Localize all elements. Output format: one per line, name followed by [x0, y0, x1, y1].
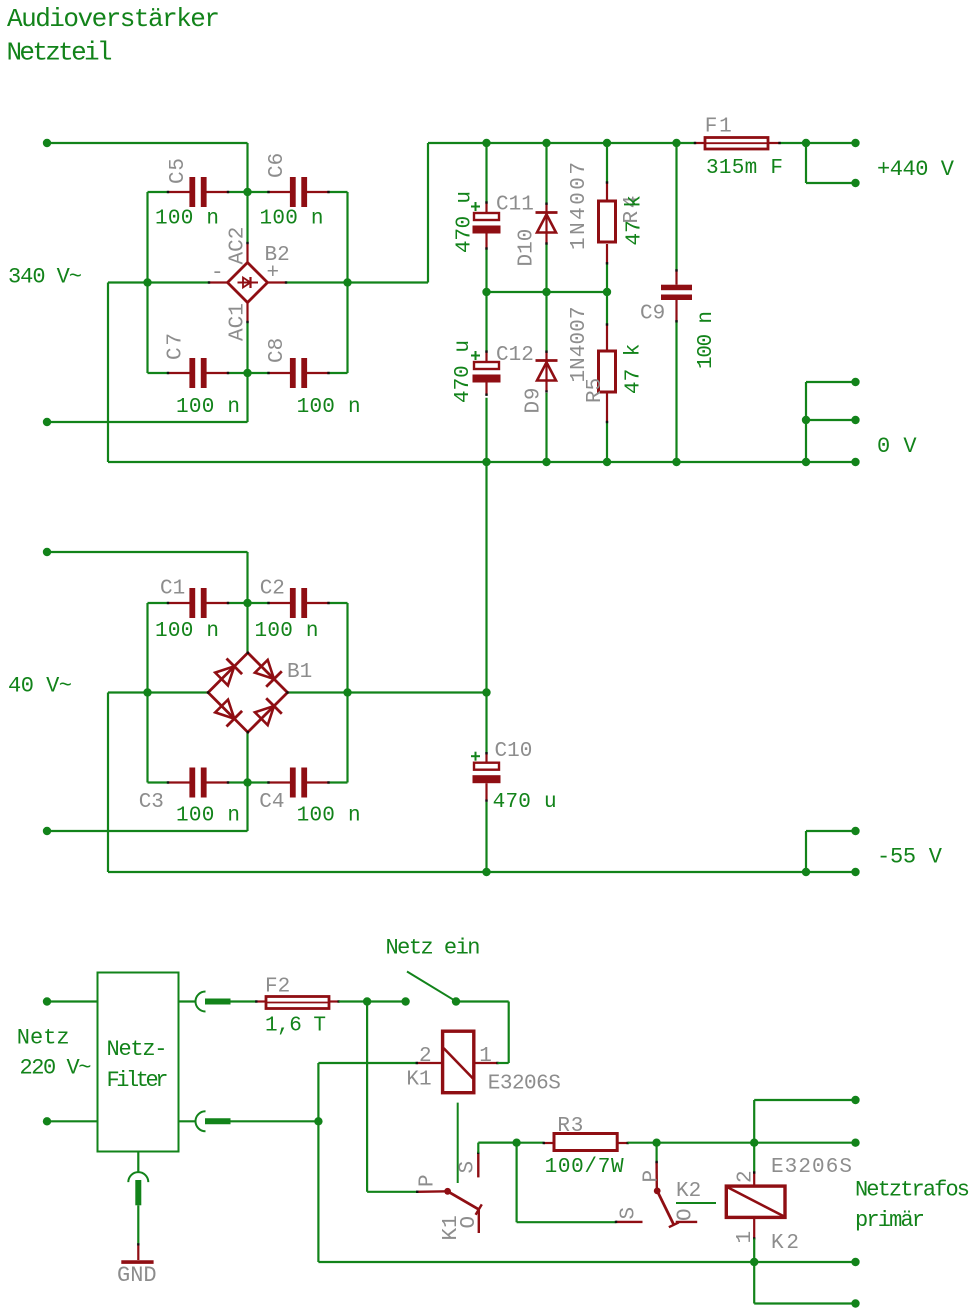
svg-text:C8: C8	[266, 338, 289, 363]
svg-text:100 n: 100 n	[260, 208, 324, 231]
svg-text:Netz: Netz	[17, 1026, 70, 1051]
svg-text:100 n: 100 n	[176, 396, 240, 419]
svg-text:S: S	[618, 1207, 641, 1220]
svg-text:K1: K1	[406, 1069, 431, 1092]
svg-text:100 n: 100 n	[155, 620, 219, 643]
svg-text:315m F: 315m F	[706, 157, 783, 180]
svg-text:F2: F2	[265, 976, 290, 999]
svg-text:K1: K1	[440, 1215, 463, 1240]
svg-text:47 k: 47 k	[624, 195, 647, 245]
svg-text:40 V~: 40 V~	[8, 674, 72, 699]
svg-text:+440 V: +440 V	[877, 157, 955, 182]
svg-text:220 V~: 220 V~	[20, 1056, 92, 1081]
svg-text:Netz ein: Netz ein	[386, 936, 481, 961]
svg-text:C4: C4	[259, 791, 284, 814]
svg-text:100 n: 100 n	[176, 805, 240, 828]
svg-text:E3206S: E3206S	[771, 1156, 852, 1179]
svg-text:C11: C11	[496, 193, 534, 216]
svg-text:-: -	[211, 262, 224, 285]
svg-text:1N4007: 1N4007	[568, 307, 591, 383]
svg-text:47 k: 47 k	[623, 344, 646, 394]
svg-text:P: P	[641, 1170, 664, 1183]
svg-text:P: P	[417, 1174, 440, 1187]
svg-text:C6: C6	[266, 153, 289, 178]
svg-text:470 u: 470 u	[454, 191, 477, 253]
svg-text:2: 2	[419, 1045, 432, 1068]
svg-text:Filter: Filter	[107, 1068, 169, 1093]
svg-text:R5: R5	[584, 378, 607, 403]
svg-text:470 u: 470 u	[452, 340, 475, 403]
svg-text:O: O	[675, 1208, 698, 1221]
svg-text:C12: C12	[496, 344, 534, 367]
svg-text:D10: D10	[516, 229, 539, 267]
svg-text:-55 V: -55 V	[877, 845, 943, 870]
svg-text:1: 1	[479, 1045, 492, 1068]
svg-text:E3206S: E3206S	[488, 1073, 561, 1096]
svg-text:primär: primär	[855, 1208, 925, 1233]
svg-text:D9: D9	[523, 388, 546, 414]
svg-text:C3: C3	[139, 791, 164, 814]
svg-text:100 n: 100 n	[297, 396, 361, 419]
svg-text:0 V: 0 V	[877, 434, 917, 459]
svg-text:Netz-: Netz-	[107, 1037, 168, 1062]
svg-text:AC1: AC1	[227, 303, 250, 341]
svg-text:2: 2	[735, 1170, 758, 1183]
svg-text:Netzteil: Netzteil	[7, 38, 113, 68]
svg-text:F1: F1	[705, 116, 732, 139]
svg-text:C1: C1	[160, 578, 185, 601]
svg-text:K2: K2	[676, 1180, 701, 1203]
svg-text:AC2: AC2	[227, 227, 250, 265]
svg-text:C10: C10	[495, 740, 533, 763]
svg-text:470 u: 470 u	[493, 791, 557, 814]
svg-text:100 n: 100 n	[155, 208, 219, 231]
svg-text:S: S	[457, 1161, 480, 1174]
svg-text:+: +	[267, 262, 280, 285]
svg-text:C9: C9	[640, 303, 665, 326]
svg-text:R3: R3	[557, 1115, 583, 1138]
svg-text:100 n: 100 n	[695, 311, 718, 369]
svg-text:GND: GND	[117, 1263, 157, 1288]
svg-text:C2: C2	[260, 578, 285, 601]
svg-text:Audioverstärker: Audioverstärker	[7, 4, 220, 34]
svg-text:100 n: 100 n	[255, 620, 319, 643]
svg-text:C5: C5	[167, 158, 190, 184]
svg-text:C7: C7	[165, 333, 188, 360]
svg-text:Netztrafos: Netztrafos	[855, 1178, 970, 1203]
svg-text:340 V~: 340 V~	[8, 265, 82, 290]
svg-text:B1: B1	[287, 661, 312, 684]
svg-text:1,6 T: 1,6 T	[265, 1015, 326, 1038]
svg-text:100 n: 100 n	[297, 805, 361, 828]
svg-text:1: 1	[734, 1231, 757, 1244]
svg-text:100/7W: 100/7W	[545, 1156, 624, 1179]
